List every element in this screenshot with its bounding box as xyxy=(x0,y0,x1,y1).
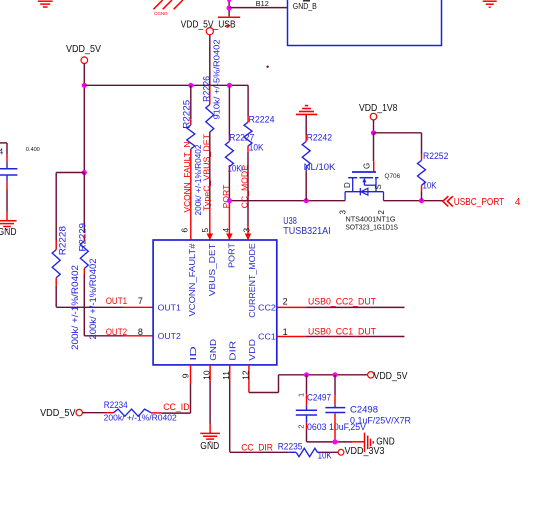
svg-text:2: 2 xyxy=(283,297,288,307)
svg-text:OUT2: OUT2 xyxy=(158,331,181,341)
svg-text:10: 10 xyxy=(201,370,211,380)
svg-text:GND: GND xyxy=(200,441,219,452)
svg-text:CC1: CC1 xyxy=(258,331,276,341)
svg-text:VCONN_FAULT_N: VCONN_FAULT_N xyxy=(182,142,192,213)
svg-text:10K: 10K xyxy=(318,451,332,461)
svg-text:0.400: 0.400 xyxy=(26,147,40,153)
svg-text:11: 11 xyxy=(221,371,231,380)
svg-text:8: 8 xyxy=(138,327,143,337)
svg-text:R2225: R2225 xyxy=(182,100,192,129)
svg-text:C2498: C2498 xyxy=(350,404,378,414)
svg-text:DIR: DIR xyxy=(227,341,237,361)
svg-text:2: 2 xyxy=(297,425,306,429)
svg-text:VDD_5V: VDD_5V xyxy=(66,44,101,55)
svg-text:B12: B12 xyxy=(256,0,269,8)
svg-text:6: 6 xyxy=(180,228,190,233)
svg-text:R2226: R2226 xyxy=(202,76,212,102)
svg-text:5: 5 xyxy=(200,228,210,233)
svg-text:NTS4001NT1G: NTS4001NT1G xyxy=(346,216,396,223)
svg-text:1: 1 xyxy=(297,393,306,397)
svg-text:R2224: R2224 xyxy=(249,114,275,124)
svg-text:7: 7 xyxy=(138,296,143,306)
svg-text:USB0_CC2_DUT: USB0_CC2_DUT xyxy=(308,297,376,308)
svg-text:PORT: PORT xyxy=(221,184,231,209)
svg-text:R2252: R2252 xyxy=(423,151,448,161)
svg-text:Q706: Q706 xyxy=(385,173,401,180)
svg-text:R2229: R2229 xyxy=(78,223,88,252)
svg-text:10K: 10K xyxy=(423,181,437,191)
svg-text:GND: GND xyxy=(376,437,395,448)
svg-text:CC2: CC2 xyxy=(258,302,276,312)
svg-text:D: D xyxy=(343,182,352,188)
svg-text:R2228: R2228 xyxy=(58,226,68,255)
svg-text:PORT: PORT xyxy=(227,242,237,268)
svg-text:R2242: R2242 xyxy=(307,133,332,143)
svg-text:4: 4 xyxy=(0,147,4,157)
svg-text:VDD: VDD xyxy=(247,339,257,361)
svg-text:200k/ +/-1%/R0402: 200k/ +/-1%/R0402 xyxy=(88,258,98,339)
svg-text:0.1uF/25V/X7R: 0.1uF/25V/X7R xyxy=(350,416,411,426)
svg-text:USB0_CC1_DUT: USB0_CC1_DUT xyxy=(308,327,376,338)
svg-text:4: 4 xyxy=(221,228,231,233)
svg-text:VDD_1V8: VDD_1V8 xyxy=(359,103,398,114)
svg-text:OUT2: OUT2 xyxy=(106,327,127,338)
svg-text:VDD_5V: VDD_5V xyxy=(374,371,408,382)
svg-text:CURRENT_MODE: CURRENT_MODE xyxy=(247,243,257,318)
svg-text:2: 2 xyxy=(377,210,386,215)
svg-text:ID: ID xyxy=(188,346,198,361)
svg-text:3: 3 xyxy=(241,228,251,233)
svg-text:GND: GND xyxy=(208,339,218,361)
svg-text:3: 3 xyxy=(338,210,347,215)
svg-text:9: 9 xyxy=(181,373,191,378)
svg-text:VCONN_FAULT#: VCONN_FAULT# xyxy=(187,243,197,316)
svg-text:4: 4 xyxy=(515,197,521,208)
svg-text:G: G xyxy=(362,163,371,169)
svg-text:C2497: C2497 xyxy=(307,392,331,402)
svg-text:1: 1 xyxy=(283,327,288,337)
svg-text:CC_MODE: CC_MODE xyxy=(239,165,249,209)
svg-text:910k/ +/-5%/R0402: 910k/ +/-5%/R0402 xyxy=(211,39,221,119)
svg-text:TypeC_VBUS_DET: TypeC_VBUS_DET xyxy=(202,133,212,211)
svg-text:USBC_PORT: USBC_PORT xyxy=(454,196,505,208)
svg-text:TUSB321AI: TUSB321AI xyxy=(283,226,330,237)
svg-text:NL/10K: NL/10K xyxy=(304,162,336,172)
svg-text:12: 12 xyxy=(240,370,250,380)
svg-text:200k/ +/-1%/R0402: 200k/ +/-1%/R0402 xyxy=(104,412,177,422)
svg-text:OUT1: OUT1 xyxy=(158,302,181,312)
svg-text:GND: GND xyxy=(0,227,17,238)
svg-text:200k/ +/-1%/R0402: 200k/ +/-1%/R0402 xyxy=(70,265,80,350)
svg-text:VBUS_DET: VBUS_DET xyxy=(207,242,217,296)
svg-text:CGND: CGND xyxy=(154,11,168,16)
svg-text:CC_DIR: CC_DIR xyxy=(241,442,273,453)
svg-text:R2227: R2227 xyxy=(229,133,254,143)
svg-text:R2235: R2235 xyxy=(278,441,303,451)
svg-text:OUT1: OUT1 xyxy=(106,296,127,307)
svg-text:VDD_5V: VDD_5V xyxy=(40,408,76,419)
svg-text:GND_B: GND_B xyxy=(293,2,317,11)
svg-text:SOT323_1G1D1S: SOT323_1G1D1S xyxy=(346,224,399,231)
svg-text:S: S xyxy=(374,184,383,189)
svg-text:R2234: R2234 xyxy=(104,400,128,410)
svg-text:10K: 10K xyxy=(249,143,264,153)
